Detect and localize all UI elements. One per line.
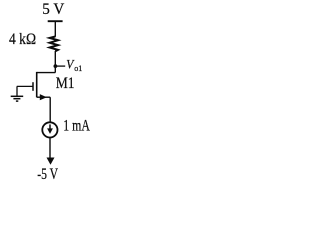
svg-text:1 mA: 1 mA [63, 117, 90, 135]
transistor M1 channel bar [36, 72, 38, 97]
svg-text:o1: o1 [74, 64, 82, 73]
current source I 1mA [42, 122, 57, 137]
wire node stub to Vo1 label [55, 65, 65, 67]
transistor M1 drain lead [37, 72, 56, 74]
label 1 mA [63, 117, 90, 135]
resistor R 4k [50, 37, 58, 52]
svg-text:-5 V: -5 V [37, 166, 58, 183]
transistor M1 gate lead [17, 85, 33, 87]
label +5V supply [42, 1, 65, 18]
svg-text:M1: M1 [56, 75, 75, 92]
label M1 [56, 75, 75, 92]
arrowhead to -5V [47, 158, 55, 165]
transistor M1 source lead with arrow [37, 94, 51, 100]
transistor M1 gate bar [32, 82, 34, 91]
power supply bar +5V [48, 20, 63, 22]
label -5V supply [37, 166, 58, 183]
node Vo1 junction dot [54, 64, 58, 68]
wire resistor to drain [54, 51, 56, 73]
svg-text:5 V: 5 V [42, 1, 65, 18]
ground [11, 86, 24, 101]
wire current source to -5V [49, 138, 51, 158]
svg-text:4 kΩ: 4 kΩ [9, 31, 36, 48]
label Vo1 [66, 57, 82, 73]
wire supply to resistor [54, 21, 56, 37]
wire source to current source [49, 97, 51, 122]
label 4 kOhm [9, 31, 36, 48]
